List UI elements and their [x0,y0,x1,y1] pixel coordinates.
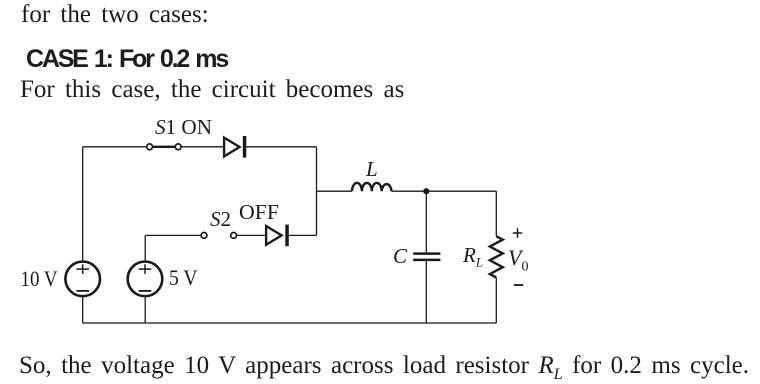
capacitor C plates [413,254,440,260]
svg-text:RL: RL [462,243,483,270]
node A junction dot [423,188,429,194]
wire left vertical below 10V source [82,296,84,323]
wire D2 to right vertical [288,234,316,236]
svg-text:OFF: OFF [239,200,279,224]
wire node A to RL corner [426,190,496,192]
wire capacitor bottom vertical [425,261,427,323]
wire S2 to D2 [237,234,266,236]
source V1 10V circle [65,262,100,297]
wire inductor to node A [392,190,427,192]
svg-text:10 V: 10 V [21,266,58,291]
svg-text:S1 ON: S1 ON [155,115,212,139]
svg-text:5 V: 5 V [169,265,198,290]
svg-text:V0: V0 [508,245,528,275]
wire left vertical above 10V source [82,147,84,262]
text paragraph line 2 [20,76,404,104]
text paragraph line 1 [21,1,209,29]
label V0 plus [513,228,522,237]
diode D2 [266,225,289,247]
label S2 [210,207,231,231]
switch S2 (open) [201,233,236,239]
label V0 [508,245,528,275]
wire right vertical (top wire down to S2 wire) [316,147,318,236]
label L [365,157,378,181]
label 5 V [169,265,198,290]
bottom caption text [19,352,749,380]
source V2 5V circle [128,262,163,297]
wire capacitor top vertical [425,191,427,252]
wire top-left horizontal (left corner to S1) [83,146,147,148]
label RL [462,243,483,270]
switch S1 (closed) [147,144,181,150]
resistor RL zigzag [490,236,503,277]
svg-text:C: C [393,244,408,268]
label V0 minus [514,284,523,286]
svg-text:S2: S2 [210,207,231,231]
wire RL bottom vertical [495,278,497,323]
wire S2 left horizontal [145,234,201,236]
label S1 ON [155,115,212,139]
wire inductor feed [317,190,353,192]
label 10 V [21,266,58,291]
label OFF [239,200,279,224]
wire RL top vertical [495,191,497,236]
wire 5V branch vertical above source [144,235,146,261]
inductor L [352,183,391,191]
svg-text:L: L [365,157,378,181]
wire bottom horizontal [83,322,497,324]
wire 5V branch vertical below source [144,296,146,323]
diode D1 [224,136,246,158]
wire D1 to top-right corner [246,146,316,148]
heading CASE 1 [26,45,227,74]
wire S1 to D1 [181,146,223,148]
label C [393,244,408,268]
